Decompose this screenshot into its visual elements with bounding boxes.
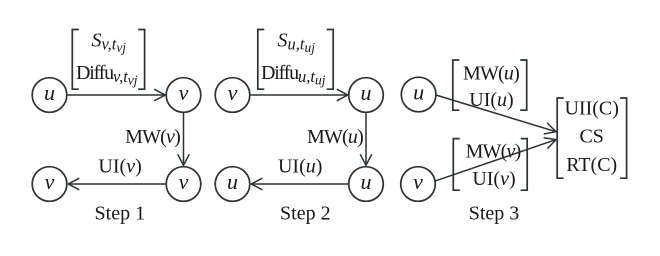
svg-text:u: u xyxy=(44,80,55,105)
svg-text:Su,tuj: Su,tuj xyxy=(278,30,316,56)
svg-text:Step 1: Step 1 xyxy=(95,203,146,225)
svg-text:MW(v): MW(v) xyxy=(125,126,180,148)
svg-text:Step 3: Step 3 xyxy=(469,203,520,225)
svg-text:v: v xyxy=(413,169,423,194)
svg-text:UI(u): UI(u) xyxy=(278,155,322,177)
svg-text:Diffuu,tuj: Diffuu,tuj xyxy=(261,62,326,88)
svg-text:v: v xyxy=(179,80,189,105)
svg-text:v: v xyxy=(45,169,55,194)
svg-text:u: u xyxy=(361,169,372,194)
svg-text:MW(v): MW(v) xyxy=(466,140,521,162)
svg-text:u: u xyxy=(413,79,424,104)
svg-text:MW(u): MW(u) xyxy=(463,62,519,84)
svg-text:v: v xyxy=(179,169,189,194)
svg-text:CS: CS xyxy=(579,125,603,147)
svg-text:u: u xyxy=(361,80,372,105)
svg-text:Sv,tvj: Sv,tvj xyxy=(92,30,127,56)
svg-text:RT(C): RT(C) xyxy=(566,154,617,176)
svg-text:UI(v): UI(v) xyxy=(98,155,141,177)
svg-text:UII(C): UII(C) xyxy=(564,97,618,119)
svg-text:UI(v): UI(v) xyxy=(472,168,515,190)
svg-text:u: u xyxy=(227,169,238,194)
svg-text:v: v xyxy=(228,80,238,105)
svg-text:MW(u): MW(u) xyxy=(307,126,363,148)
svg-text:Diffuv,tvj: Diffuv,tvj xyxy=(76,62,138,88)
svg-text:Step 2: Step 2 xyxy=(280,203,331,225)
